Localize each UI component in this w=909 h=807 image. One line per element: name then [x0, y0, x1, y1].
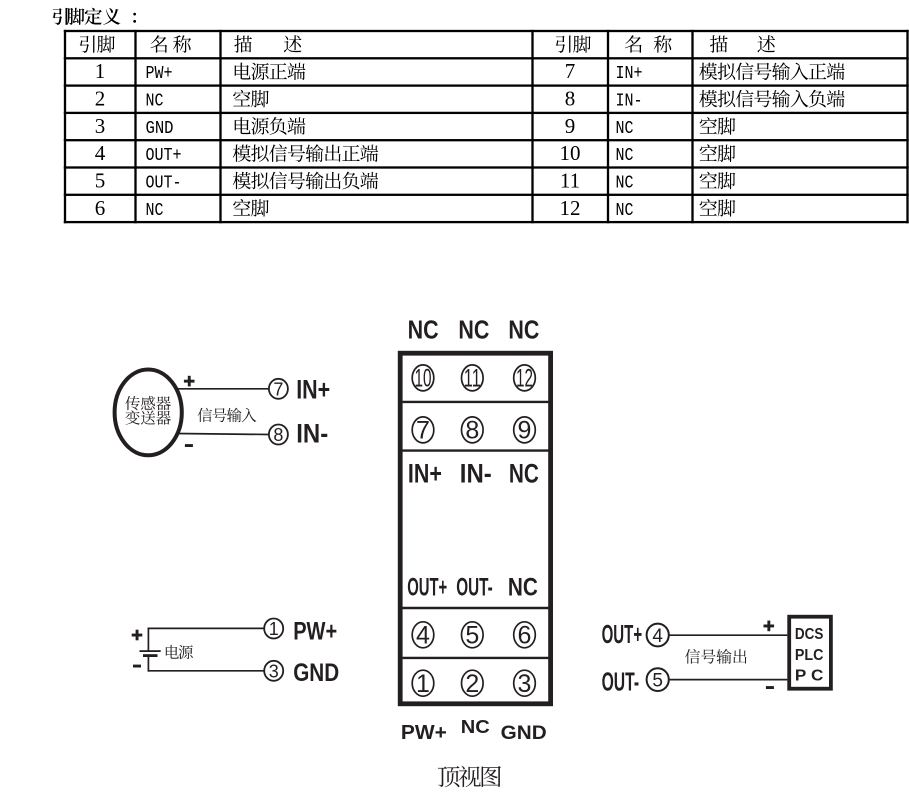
svg-text:IN-: IN- [460, 458, 492, 488]
module terminal 2 [462, 670, 484, 698]
node circle 5 [647, 668, 669, 691]
svg-text:NC: NC [616, 119, 634, 139]
title 引脚定义： [53, 8, 137, 25]
svg-text:12: 12 [516, 365, 533, 393]
module terminal 8 [462, 417, 484, 445]
svg-text:1: 1 [416, 670, 430, 698]
svg-text:5: 5 [652, 671, 663, 692]
battery long plate (+) [140, 650, 161, 652]
svg-text:5: 5 [95, 169, 106, 193]
module outline (top view) [400, 353, 550, 704]
svg-text:5: 5 [465, 622, 479, 650]
svg-text:9: 9 [565, 114, 576, 138]
wire sensor+ to pin7 [177, 388, 270, 390]
label PLC [795, 647, 824, 664]
svg-text:4: 4 [652, 626, 663, 647]
node circle 8 [269, 425, 288, 446]
svg-text:PW+: PW+ [146, 64, 173, 84]
svg-text:OUT-: OUT- [456, 573, 493, 601]
label NC (top, over pin 11) [458, 314, 489, 344]
svg-text:NC: NC [458, 314, 489, 344]
svg-text:PW+: PW+ [401, 722, 447, 744]
wire pin5 to DCS box [669, 679, 788, 681]
label NC (bottom) [461, 716, 490, 737]
svg-text:NC: NC [461, 716, 490, 737]
svg-text:NC: NC [616, 174, 634, 194]
svg-text:GND: GND [501, 723, 547, 744]
svg-text:4: 4 [95, 141, 106, 165]
table header left: 引脚 名称 描述 [80, 35, 302, 53]
module terminal 4 [412, 622, 434, 650]
label 信号输入 (signal input) [198, 408, 257, 423]
module terminal 12 [514, 365, 536, 393]
svg-text:9: 9 [518, 417, 532, 445]
svg-text:2: 2 [95, 87, 106, 111]
label IN+ (beside pin 7) [296, 375, 330, 405]
wire battery+ vertical [147, 628, 149, 651]
svg-text:IN+: IN+ [408, 458, 442, 488]
module terminal 5 [462, 622, 484, 650]
module terminal 9 [514, 417, 536, 445]
wire battery- to pin3 [148, 670, 265, 672]
label PW+ (beside pin 1) [293, 618, 337, 646]
label OUT+ (module) [407, 573, 447, 601]
plus sign (DCS input) [764, 621, 775, 632]
table description column [233, 62, 845, 216]
module terminal 7 [412, 417, 434, 445]
module terminal 6 [514, 622, 536, 650]
node circle 3 [264, 661, 283, 682]
svg-text:IN+: IN+ [296, 375, 330, 405]
node circle 7 [269, 379, 288, 400]
battery short plate (-) [143, 654, 158, 657]
svg-text:IN-: IN- [296, 418, 328, 448]
svg-text:4: 4 [416, 622, 430, 650]
module terminal 11 [462, 365, 484, 393]
svg-text:IN-: IN- [616, 92, 643, 112]
svg-text:OUT+: OUT+ [602, 621, 643, 649]
svg-text:7: 7 [416, 417, 430, 445]
svg-text:7: 7 [565, 59, 576, 83]
label NC (top, over pin 10) [408, 314, 439, 344]
node circle 4 [647, 624, 669, 647]
svg-text:2: 2 [465, 670, 479, 698]
DCS/PLC/PC box [789, 617, 831, 689]
svg-text:GND: GND [293, 659, 339, 687]
label IN- (module) [460, 458, 492, 488]
label DCS [795, 626, 824, 643]
table name column [146, 64, 643, 221]
minus sign (battery) [133, 665, 141, 668]
label OUT- (beside pin 5) [602, 669, 640, 697]
svg-text:10: 10 [560, 141, 581, 165]
label IN+ (module) [408, 458, 442, 488]
svg-text:OUT+: OUT+ [146, 146, 182, 166]
svg-text:NC: NC [508, 573, 538, 601]
table header right: 引脚 名称 描述 [556, 35, 775, 53]
svg-text:6: 6 [518, 622, 532, 650]
svg-text:1: 1 [95, 59, 106, 83]
svg-text:NC: NC [509, 458, 539, 488]
svg-text:GND: GND [146, 119, 174, 139]
module terminal 1 [412, 670, 434, 698]
svg-text:NC: NC [616, 201, 634, 221]
minus sign (DCS input) [766, 686, 774, 689]
svg-text:6: 6 [95, 196, 106, 220]
svg-text:OUT+: OUT+ [407, 573, 447, 601]
pin definition table grid [64, 30, 909, 223]
svg-text:3: 3 [518, 670, 532, 698]
svg-text:NC: NC [508, 314, 539, 344]
svg-text:PW+: PW+ [293, 618, 337, 646]
label OUT- (module) [456, 573, 493, 601]
wire sensor- to pin8 [177, 434, 270, 435]
wire battery+ to pin1 [148, 627, 265, 629]
caption 顶视图 (top view) [438, 766, 501, 788]
label OUT+ (beside pin 4) [602, 621, 643, 649]
svg-text:7: 7 [273, 379, 283, 399]
svg-text:P C: P C [795, 667, 824, 684]
minus sign (sensor) [185, 444, 193, 447]
svg-text:NC: NC [146, 92, 164, 112]
svg-text:OUT-: OUT- [602, 669, 640, 697]
svg-text:NC: NC [408, 314, 439, 344]
label IN- (beside pin 8) [296, 418, 328, 448]
svg-text:IN+: IN+ [616, 64, 643, 84]
terminal row separator lines [400, 402, 550, 658]
svg-text:10: 10 [415, 365, 432, 393]
svg-text:NC: NC [146, 201, 164, 221]
svg-text:8: 8 [465, 417, 479, 445]
svg-text:3: 3 [95, 114, 106, 138]
label GND (beside pin 3) [293, 659, 339, 687]
sensor text 传感器 / 变送器 [125, 396, 171, 425]
label NC (top, over pin 12) [508, 314, 539, 344]
sensor/transmitter ellipse [115, 370, 182, 456]
svg-text:DCS: DCS [795, 626, 824, 643]
svg-text:11: 11 [560, 169, 580, 193]
module terminal 10 [412, 365, 434, 393]
label PW+ (bottom) [401, 722, 447, 744]
plus sign (battery) [132, 630, 143, 641]
module terminal 3 [514, 670, 536, 698]
svg-text:NC: NC [616, 146, 634, 166]
label P C [795, 667, 824, 684]
svg-text:PLC: PLC [795, 647, 824, 664]
label NC (module, over pin 6) [508, 573, 538, 601]
plus sign (sensor) [184, 376, 195, 387]
table pin numbers [95, 59, 581, 220]
svg-text:11: 11 [464, 365, 481, 393]
svg-text:8: 8 [273, 425, 283, 445]
label NC (module mid) [509, 458, 539, 488]
label GND (bottom) [501, 723, 547, 744]
label 电源 (power) [166, 645, 193, 659]
wire pin4 to DCS box [669, 634, 788, 636]
wire battery- vertical [147, 657, 149, 672]
svg-text:8: 8 [565, 87, 576, 111]
label 信号输出 (signal output) [685, 649, 747, 664]
svg-text:3: 3 [269, 661, 279, 681]
svg-text:12: 12 [560, 196, 581, 220]
svg-text:1: 1 [269, 619, 279, 639]
svg-text:OUT-: OUT- [146, 174, 182, 194]
node circle 1 [264, 619, 283, 640]
